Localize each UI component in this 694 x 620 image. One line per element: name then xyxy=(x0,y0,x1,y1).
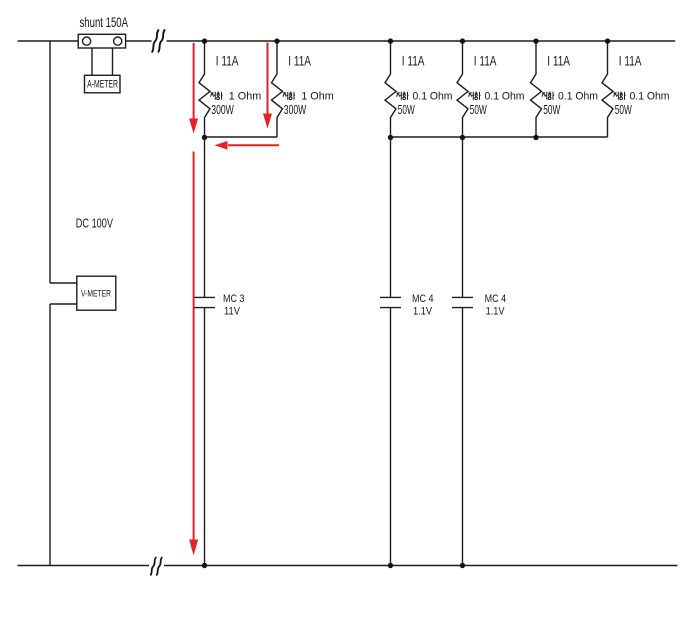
svg-text:0.1 Ohm: 0.1 Ohm xyxy=(485,91,525,103)
label jeohang (resistance) for R4 xyxy=(468,92,480,100)
resistor R1 1 Ohm 300W branch xyxy=(199,41,210,137)
node junction on group2 bus xyxy=(533,135,538,140)
node dot top of R1 xyxy=(202,38,207,43)
V-METER U2 xyxy=(77,276,116,310)
svg-text:I 11A: I 11A xyxy=(288,54,311,69)
current arrow I2 down through R2 xyxy=(267,43,269,115)
wire shunt to break xyxy=(126,40,152,42)
svg-text:1.1V: 1.1V xyxy=(413,306,433,318)
wire MC 4 lower lead xyxy=(462,308,464,566)
break marks top (line interruption) xyxy=(152,30,159,53)
wire bottom bus right of break xyxy=(164,565,678,567)
contactor MC 3 (K1) xyxy=(194,297,215,307)
node A junction R1/R2 xyxy=(202,135,207,140)
wire MC 4 upper lead xyxy=(462,137,464,297)
current arrow long down to bottom bus xyxy=(193,152,195,541)
svg-text:50W: 50W xyxy=(470,102,487,117)
wire shunt to A-METER leads xyxy=(92,48,113,75)
svg-text:0.1 Ohm: 0.1 Ohm xyxy=(413,91,453,103)
svg-text:shunt 150A: shunt 150A xyxy=(80,14,129,30)
current arrow left along node A bus xyxy=(228,144,279,146)
wire bottom bus left segment xyxy=(18,565,150,567)
label jeohang (resistance) for R2 xyxy=(283,92,295,100)
contactor MC 4 (K3) xyxy=(452,297,473,307)
wire left bus vertical lower xyxy=(49,304,51,566)
svg-text:A-METER: A-METER xyxy=(87,78,118,90)
label jeohang (resistance) for R1 xyxy=(210,92,222,100)
node junction on group2 bus xyxy=(388,135,393,140)
wire stub from V-METER bottom xyxy=(50,303,77,305)
svg-text:300W: 300W xyxy=(211,102,234,117)
svg-text:50W: 50W xyxy=(398,102,415,117)
node dot top of R2 xyxy=(274,38,279,43)
svg-text:0.1 Ohm: 0.1 Ohm xyxy=(558,91,598,103)
wire left bus vertical upper xyxy=(49,41,51,283)
svg-text:DC 100V: DC 100V xyxy=(76,215,113,230)
wire MC 4 upper lead xyxy=(390,137,392,297)
label jeohang (resistance) for R3 xyxy=(396,92,408,100)
wire MC 4 lower lead xyxy=(390,308,392,566)
wire MC 3 upper lead xyxy=(204,137,206,297)
shunt 150A body xyxy=(78,34,125,48)
node junction on group2 bus xyxy=(460,135,465,140)
label jeohang (resistance) for R6 xyxy=(613,92,625,100)
wire top bus right of break xyxy=(167,40,676,42)
node dot top of R5 xyxy=(533,38,538,43)
svg-text:I 11A: I 11A xyxy=(619,54,642,69)
break marks bottom xyxy=(150,557,156,576)
svg-text:MC 3: MC 3 xyxy=(223,293,245,305)
svg-text:I 11A: I 11A xyxy=(547,54,570,69)
wire top bus left segment xyxy=(18,40,78,42)
svg-text:I 11A: I 11A xyxy=(216,54,239,69)
node dot top of R3 xyxy=(388,38,393,43)
svg-text:MC 4: MC 4 xyxy=(412,293,434,305)
resistor R5 0.1 Ohm 50W branch xyxy=(531,41,542,137)
A-METER U1 xyxy=(85,75,121,93)
svg-text:0.1 Ohm: 0.1 Ohm xyxy=(630,91,670,103)
svg-text:1 Ohm: 1 Ohm xyxy=(301,91,333,103)
resistor R4 0.1 Ohm 50W branch xyxy=(457,41,468,137)
resistor R6 0.1 Ohm 50W branch xyxy=(602,41,613,137)
svg-text:50W: 50W xyxy=(543,102,560,117)
current arrow I1 down through R1 xyxy=(193,43,195,120)
wire bus group2 bottom (R3-R6) xyxy=(391,136,608,138)
resistor R2 1 Ohm 300W branch xyxy=(272,41,283,137)
node dot on bottom bus xyxy=(388,563,393,568)
wire bus group1 bottom (R1-R2) xyxy=(205,136,278,138)
svg-text:50W: 50W xyxy=(615,102,632,117)
svg-text:V-METER: V-METER xyxy=(81,289,111,299)
svg-text:1 Ohm: 1 Ohm xyxy=(229,91,261,103)
node dot top of R6 xyxy=(605,38,610,43)
node dot top of R4 xyxy=(460,38,465,43)
svg-text:I 11A: I 11A xyxy=(402,54,425,69)
svg-text:11V: 11V xyxy=(224,306,241,318)
svg-text:1.1V: 1.1V xyxy=(486,306,506,318)
svg-text:300W: 300W xyxy=(284,102,307,117)
label jeohang (resistance) for R5 xyxy=(542,92,554,100)
wire MC 3 lower lead xyxy=(204,308,206,566)
wire stub to V-METER top xyxy=(50,282,77,284)
svg-text:I 11A: I 11A xyxy=(474,54,497,69)
svg-text:MC 4: MC 4 xyxy=(485,293,507,305)
node dot on bottom bus xyxy=(202,563,207,568)
resistor R3 0.1 Ohm 50W branch xyxy=(385,41,396,137)
contactor MC 4 (K2) xyxy=(380,297,401,307)
node dot on bottom bus xyxy=(460,563,465,568)
